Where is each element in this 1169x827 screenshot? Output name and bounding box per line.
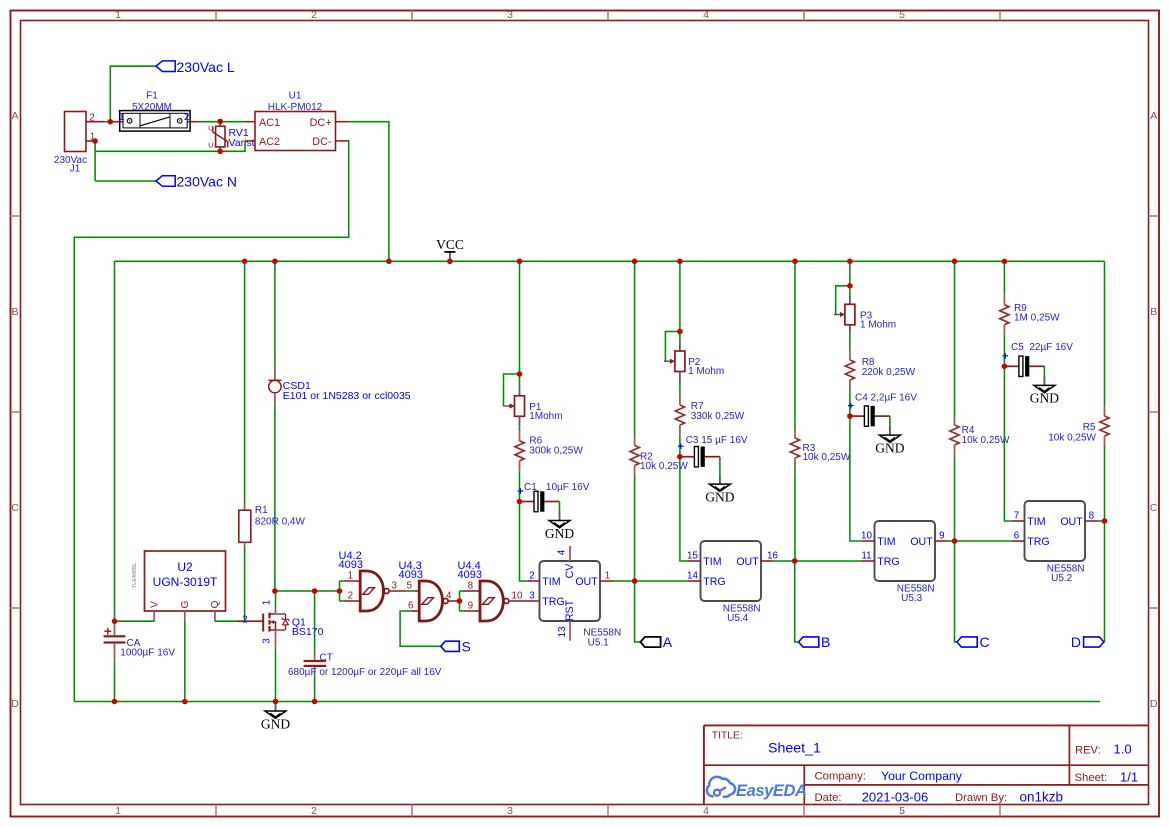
svg-text:B: B xyxy=(11,306,18,318)
wire Q1 source to ground rail xyxy=(275,649,277,702)
resistor R4 xyxy=(950,415,959,455)
wire R4 to C node xyxy=(954,455,956,541)
U4.3 pin 6 stub xyxy=(410,610,419,612)
fuse F1 pin stubs xyxy=(114,121,123,123)
hall sensor U2 xyxy=(145,551,226,611)
svg-text:D: D xyxy=(11,698,19,710)
svg-text:3: 3 xyxy=(392,581,398,592)
wire C3 to ground xyxy=(719,457,721,475)
svg-text:Your Company: Your Company xyxy=(881,769,963,783)
svg-text:5X20MM: 5X20MM xyxy=(132,102,172,113)
junction VCC R4 xyxy=(952,259,958,265)
U4.2 output stub pin 3 xyxy=(389,590,407,592)
svg-text:E101 or 1N5283 or ccl0035: E101 or 1N5283 or ccl0035 xyxy=(283,390,411,402)
junction C4 node xyxy=(847,413,853,419)
net flag C xyxy=(957,637,977,647)
svg-text:U5.1: U5.1 xyxy=(588,637,610,648)
svg-text:CV: CV xyxy=(564,563,576,579)
wire VCC to P3 pin xyxy=(849,286,851,296)
wire C4 node to U5.3 TIM xyxy=(850,416,862,541)
U5.4 TIM stub pin 15 xyxy=(688,560,701,562)
wire J1 pin1 down xyxy=(94,141,96,181)
svg-text:2: 2 xyxy=(311,805,317,817)
svg-text:1/1: 1/1 xyxy=(1120,769,1138,784)
svg-text:C3 15 µF 16V: C3 15 µF 16V xyxy=(686,435,748,446)
wire U2 Q pin to Q1 gate xyxy=(215,620,237,622)
svg-text:10k 0,25W: 10k 0,25W xyxy=(640,461,688,472)
wire VCC to R2 xyxy=(634,261,636,435)
svg-text:8: 8 xyxy=(468,581,474,592)
svg-text:9: 9 xyxy=(468,601,473,612)
svg-text:1.0: 1.0 xyxy=(1114,742,1132,757)
wire fuse to AC1 xyxy=(199,121,245,123)
wire VCC to P1 xyxy=(519,261,521,374)
wire VCC rail xyxy=(115,260,1105,262)
wire P3 hook xyxy=(836,286,850,315)
junction CA ground xyxy=(112,699,118,705)
svg-text:16: 16 xyxy=(767,551,778,562)
svg-text:6: 6 xyxy=(1014,531,1020,542)
svg-text:R5: R5 xyxy=(1083,422,1096,433)
wire B node to U5.3 TRG xyxy=(795,560,862,562)
svg-text:C4 2,2µF 16V: C4 2,2µF 16V xyxy=(855,392,917,403)
svg-text:Date:: Date: xyxy=(815,792,842,804)
wire drain node to gate tie xyxy=(275,590,340,592)
nand gate U4.4 xyxy=(480,581,509,621)
svg-text:3: 3 xyxy=(529,591,535,602)
svg-text:C5 22µF 16V: C5 22µF 16V xyxy=(1011,342,1073,353)
svg-text:10k 0,25W: 10k 0,25W xyxy=(803,452,851,463)
ground C5 xyxy=(1030,376,1059,406)
svg-text:TRG: TRG xyxy=(877,556,899,568)
wire C5 node to U5.2 TIM xyxy=(1004,366,1012,521)
junction RV1 top xyxy=(217,119,223,125)
junction B node xyxy=(792,558,798,564)
wire U5.1 OUT to node xyxy=(614,580,635,582)
svg-text:2: 2 xyxy=(184,112,189,123)
junction VCC P2 xyxy=(677,259,683,265)
transistor Q1 xyxy=(237,608,289,649)
svg-text:2021-03-06: 2021-03-06 xyxy=(862,789,929,804)
svg-text:5: 5 xyxy=(899,805,905,817)
svg-text:C: C xyxy=(1150,502,1158,514)
svg-text:2: 2 xyxy=(89,112,94,123)
svg-text:TIM: TIM xyxy=(703,556,721,568)
svg-text:3: 3 xyxy=(507,805,513,817)
svg-text:TIM: TIM xyxy=(877,536,895,548)
wire DC+ to VCC rail xyxy=(348,122,389,262)
svg-text:OUT: OUT xyxy=(575,576,598,588)
svg-text:U5.3: U5.3 xyxy=(901,593,923,604)
U2 pin stubs xyxy=(153,611,155,621)
junction VCC R9 xyxy=(1002,259,1008,265)
VCC power flag xyxy=(436,237,464,261)
net flag 230Vac L xyxy=(156,61,175,72)
wire C1 node to U5.1 TIM xyxy=(520,502,528,582)
nand gate U4.2 xyxy=(360,571,389,611)
wire J1 pin1 to AC2 xyxy=(95,141,245,151)
wire P2 to R7 xyxy=(679,382,681,396)
resistor R6 xyxy=(515,431,524,471)
svg-text:TIM: TIM xyxy=(1027,516,1045,528)
svg-text:1000µF 16V: 1000µF 16V xyxy=(120,648,175,659)
fuse F1 xyxy=(120,111,190,132)
wire DC- to ground rail xyxy=(74,141,348,702)
svg-text:1M 0,25W: 1M 0,25W xyxy=(1014,313,1060,324)
svg-text:Drawn By:: Drawn By: xyxy=(955,792,1007,804)
ground C1 xyxy=(545,511,574,541)
DC- pin stub xyxy=(336,140,349,142)
wire U4.4 input tie xyxy=(459,591,461,611)
junction C1 node xyxy=(517,499,523,505)
wire VCC to R1 xyxy=(244,261,246,505)
U4.4 output stub pin 10 to U5.1 TRG xyxy=(508,600,539,602)
wire D node to D flag xyxy=(1104,521,1106,642)
svg-text:1: 1 xyxy=(262,600,273,605)
wire B node to B flag xyxy=(795,561,799,642)
junction D node xyxy=(1102,518,1108,524)
net flag S xyxy=(441,641,460,651)
junction C node xyxy=(952,538,958,544)
svg-text:8: 8 xyxy=(1089,511,1095,522)
svg-text:B: B xyxy=(1150,306,1157,318)
junction RV1 bottom xyxy=(217,149,223,155)
resistor R8 xyxy=(845,350,854,390)
svg-text:C: C xyxy=(980,634,990,650)
EasyEDA logo xyxy=(707,777,807,800)
junction P1 hook xyxy=(517,371,523,377)
wire R1 to Q1 gate xyxy=(244,547,246,621)
diode CSD1 xyxy=(269,367,282,405)
frame column ticks bottom xyxy=(215,805,217,817)
U4.2 pin stubs xyxy=(344,580,360,582)
svg-text:U1: U1 xyxy=(289,91,302,102)
junction P3 hook xyxy=(847,283,853,289)
ground C4 xyxy=(875,426,904,456)
svg-text:D: D xyxy=(1150,698,1158,710)
frame column ticks top xyxy=(215,11,217,21)
wire Q1 drain to node xyxy=(275,591,277,608)
junction VCC at flag xyxy=(447,259,453,265)
svg-text:C1: C1 xyxy=(524,482,537,493)
U5.3 TIM stub pin 10 xyxy=(862,540,875,542)
svg-text:680µF or 1200µF or 220µF all 1: 680µF or 1200µF or 220µF all 16V xyxy=(288,667,442,678)
junction CT ground xyxy=(312,699,318,705)
wire OUT node to U5.4 TRG xyxy=(635,580,688,582)
svg-text:GND: GND xyxy=(261,716,290,731)
wire U5.3 OUT to C node xyxy=(947,540,955,542)
wire VCC to R3 xyxy=(794,261,796,428)
svg-text:2: 2 xyxy=(529,571,534,582)
capacitor CT xyxy=(304,653,327,673)
ground C3 xyxy=(705,475,734,505)
svg-text:REV:: REV: xyxy=(1075,745,1101,757)
svg-text:TIM: TIM xyxy=(542,576,560,588)
wire VCC to R4 xyxy=(954,261,956,415)
svg-text:5: 5 xyxy=(899,9,905,21)
resistor R9 xyxy=(1000,295,1009,335)
J1 pin 2 stub xyxy=(86,121,104,123)
svg-text:1: 1 xyxy=(605,571,610,582)
svg-text:DC-: DC- xyxy=(312,136,332,148)
wire VCC left drop to CA/U2 xyxy=(114,261,116,621)
svg-text:11: 11 xyxy=(861,551,871,562)
svg-text:Company:: Company: xyxy=(815,771,867,783)
U5.1 CV stub pin 4 xyxy=(569,546,571,561)
svg-text:F1: F1 xyxy=(146,91,158,102)
U4.4 pin stubs xyxy=(464,590,481,592)
svg-text:TRG: TRG xyxy=(703,576,725,588)
wire ground rail xyxy=(74,701,1100,703)
junction CT node xyxy=(312,588,318,594)
svg-text:13: 13 xyxy=(557,626,568,637)
svg-text:15: 15 xyxy=(687,551,698,562)
svg-text:5: 5 xyxy=(407,581,413,592)
junction C3 node xyxy=(677,454,683,460)
frame row ticks right xyxy=(1149,215,1159,217)
U5.4 OUT stub pin 16 xyxy=(761,560,773,562)
svg-text:10k 0,25W: 10k 0,25W xyxy=(962,435,1010,446)
capacitor C5 xyxy=(1003,353,1045,377)
timer U5.3 xyxy=(875,521,936,581)
junction Q1 source ground xyxy=(273,699,279,705)
wire CSD1 to Q1 drain node xyxy=(274,405,276,591)
wire C node to U5.2 TRG xyxy=(955,540,1013,542)
svg-text:Sheet:: Sheet: xyxy=(1075,772,1108,784)
timer U5.1 xyxy=(540,561,601,621)
svg-text:1: 1 xyxy=(115,805,121,817)
DC+ pin stub xyxy=(336,121,349,123)
J1 pin 1 stub xyxy=(86,140,95,142)
potentiometer P1 xyxy=(504,387,525,427)
svg-text:B: B xyxy=(821,634,830,650)
junction G pin ground xyxy=(182,699,188,705)
svg-text:U: U xyxy=(208,141,213,150)
resistor R7 xyxy=(675,395,684,435)
svg-text:GND: GND xyxy=(545,526,574,541)
wire VCC to P2 xyxy=(679,261,681,331)
U4.3 pin 5 stub xyxy=(414,590,419,592)
potentiometer P3 xyxy=(834,295,855,335)
wire C4 to ground xyxy=(889,416,891,426)
net flag 230Vac N xyxy=(156,176,175,187)
svg-text:1 Mohm: 1 Mohm xyxy=(688,366,724,377)
wire U2 G pin to ground rail xyxy=(184,621,186,701)
svg-text:TRG: TRG xyxy=(1027,536,1049,548)
svg-text:GND: GND xyxy=(875,440,904,455)
U5.1 OUT stub pin 1 xyxy=(600,580,614,582)
junction VCC P1 xyxy=(517,259,523,265)
wire C3 node to U5.4 TIM xyxy=(680,457,688,561)
svg-text:U2: U2 xyxy=(177,560,193,574)
wire R3 to B node xyxy=(794,468,796,561)
svg-text:CT: CT xyxy=(320,652,333,663)
wire P1 hook xyxy=(504,374,520,406)
svg-text:on1kzb: on1kzb xyxy=(1020,790,1064,805)
junction VCC R3 xyxy=(792,259,798,265)
svg-text:14: 14 xyxy=(687,571,698,582)
wire R6 to C1 node xyxy=(519,471,521,502)
nand gate U4.3 xyxy=(419,581,448,621)
wire R9 to C5 node xyxy=(1003,335,1005,367)
wire J1 pin2 to fuse F1 xyxy=(104,121,114,123)
svg-text:V: V xyxy=(150,601,161,608)
junction J1 pin1 xyxy=(92,138,98,144)
connector J1 xyxy=(65,112,87,152)
junction Q1 drain node xyxy=(272,588,278,594)
svg-text:3: 3 xyxy=(507,9,513,21)
svg-text:TITLE:: TITLE: xyxy=(712,730,743,741)
power module U1 xyxy=(255,112,336,151)
wire to 230Vac L flag xyxy=(110,66,156,122)
wire CT to ground rail xyxy=(314,673,316,702)
wire P1 to R6 xyxy=(519,426,521,431)
wire pin6 to S flag xyxy=(400,611,441,646)
svg-text:R1: R1 xyxy=(255,505,268,516)
svg-text:10: 10 xyxy=(512,591,523,602)
svg-text:300k 0,25W: 300k 0,25W xyxy=(529,445,583,456)
svg-text:TRG: TRG xyxy=(542,596,564,608)
resistor R2 xyxy=(630,436,639,476)
AC2 pin stub xyxy=(245,140,255,142)
svg-text:4: 4 xyxy=(446,591,452,602)
timer U5.4 xyxy=(701,541,762,601)
svg-text:9: 9 xyxy=(939,531,944,542)
wire P2 hook xyxy=(665,332,680,362)
wire C node to C flag xyxy=(955,541,958,642)
svg-text:2: 2 xyxy=(311,9,317,21)
svg-text:AC2: AC2 xyxy=(259,136,280,148)
svg-text:230Vac L: 230Vac L xyxy=(177,59,235,75)
wire U4.2 input tie xyxy=(339,581,341,601)
junction J1 pin2 node xyxy=(108,119,114,125)
svg-text:HLK-PM012: HLK-PM012 xyxy=(268,102,323,113)
svg-text:VCC: VCC xyxy=(436,237,464,252)
junction VCC R1 xyxy=(242,259,248,265)
resistor R5 xyxy=(1100,406,1109,446)
svg-text:1: 1 xyxy=(348,571,353,582)
svg-text:2: 2 xyxy=(242,614,247,625)
resistor R3 xyxy=(790,428,799,468)
capacitor C1 xyxy=(518,488,560,511)
svg-text:GND: GND xyxy=(1030,391,1059,406)
U5.2 TIM stub pin 7 xyxy=(1012,520,1025,522)
junction P2 hook xyxy=(677,329,683,335)
potentiometer P2 xyxy=(664,342,685,382)
svg-text:A: A xyxy=(11,110,18,122)
svg-text:4: 4 xyxy=(557,549,568,555)
svg-text:DC+: DC+ xyxy=(310,117,332,129)
wire R2 to OUT node xyxy=(634,476,636,582)
frame row ticks left xyxy=(11,215,21,217)
wire C5 to ground xyxy=(1043,366,1045,376)
AC1 pin stub xyxy=(245,121,255,123)
capacitor CA xyxy=(104,621,126,661)
svg-text:BS170: BS170 xyxy=(292,626,324,638)
svg-text:A: A xyxy=(663,634,673,650)
net flag D xyxy=(1084,637,1104,647)
wire VCC to P2 pin xyxy=(679,332,681,343)
junction C5 node xyxy=(1002,364,1008,370)
svg-text:UGN-3019T: UGN-3019T xyxy=(153,575,218,589)
resistor R1 xyxy=(239,506,251,548)
svg-text:7: 7 xyxy=(1014,511,1019,522)
wire U5.4 OUT to B node xyxy=(773,560,795,562)
junction V pin VCC CA xyxy=(112,618,118,624)
U5.2 TRG stub pin 6 xyxy=(1012,540,1025,542)
net flag B xyxy=(799,637,819,647)
wire C1 to ground xyxy=(559,502,561,512)
svg-text:OUT: OUT xyxy=(910,536,933,548)
timer U5.2 xyxy=(1025,501,1086,561)
junction VCC DC+ xyxy=(386,259,392,265)
svg-text:330k 0,25W: 330k 0,25W xyxy=(691,411,745,422)
svg-text:2: 2 xyxy=(348,591,353,602)
junction VCC P3 xyxy=(847,259,853,265)
wire VCC right drop to R5 xyxy=(1104,261,1106,406)
svg-text:OUT: OUT xyxy=(1060,516,1083,528)
svg-text:4: 4 xyxy=(703,805,709,817)
wire U4.2 out to U4.3 in xyxy=(406,590,414,592)
U5.1 TIM stub pin 2 xyxy=(528,580,540,582)
svg-text:1: 1 xyxy=(115,9,121,21)
svg-text:J1: J1 xyxy=(70,164,81,175)
U5.3 OUT stub pin 9 xyxy=(935,540,947,542)
svg-text:6: 6 xyxy=(408,601,414,612)
svg-text:G: G xyxy=(180,600,191,608)
wire VCC to P1 pin xyxy=(519,374,521,387)
wire R7 to C3 node xyxy=(679,435,681,457)
wire U2 V pin to VCC drop xyxy=(115,620,155,622)
svg-text:220k 0,25W: 220k 0,25W xyxy=(862,367,916,378)
junction VCC CSD1 xyxy=(272,259,278,265)
wire R8 to C4 node xyxy=(849,390,851,416)
wire VCC to R9 xyxy=(1003,261,1005,294)
svg-text:10k 0,25W: 10k 0,25W xyxy=(1048,433,1096,444)
svg-text:1 Mohm: 1 Mohm xyxy=(860,319,896,330)
capacitor C3 xyxy=(678,443,720,467)
svg-text:A: A xyxy=(1150,110,1157,122)
wire U5.2 OUT to D node xyxy=(1098,520,1105,522)
svg-text:GND: GND xyxy=(705,489,734,504)
svg-text:1: 1 xyxy=(119,112,124,123)
U5.3 TRG stub pin 11 xyxy=(862,560,875,562)
svg-text:230Vac N: 230Vac N xyxy=(177,174,237,190)
svg-text:RST: RST xyxy=(564,599,576,621)
svg-text:820R 0,4W: 820R 0,4W xyxy=(255,516,306,527)
svg-text:U: U xyxy=(208,124,213,133)
wire P3 to R8 xyxy=(849,335,851,350)
svg-text:Q: Q xyxy=(210,600,221,608)
svg-text:1Mohm: 1Mohm xyxy=(529,411,562,422)
wire VCC to CSD1 xyxy=(274,261,276,366)
junction U4.4 tie xyxy=(457,598,463,604)
svg-text:OUT: OUT xyxy=(736,556,759,568)
svg-text:Sheet_1: Sheet_1 xyxy=(768,740,821,756)
wire VCC to P3 xyxy=(849,261,851,286)
svg-text:EasyEDA: EasyEDA xyxy=(736,782,807,800)
wire R5 to D node xyxy=(1104,446,1106,521)
svg-text:C: C xyxy=(11,502,19,514)
junction gate tie xyxy=(337,588,343,594)
svg-text:S: S xyxy=(462,639,471,654)
svg-text:4093: 4093 xyxy=(458,569,482,581)
svg-text:10µF 16V: 10µF 16V xyxy=(546,482,590,493)
wire to 230Vac N flag xyxy=(95,180,156,182)
varistor RV1 xyxy=(213,121,228,151)
svg-text:AC1: AC1 xyxy=(259,117,280,129)
U5.2 OUT stub pin 8 xyxy=(1085,520,1098,522)
